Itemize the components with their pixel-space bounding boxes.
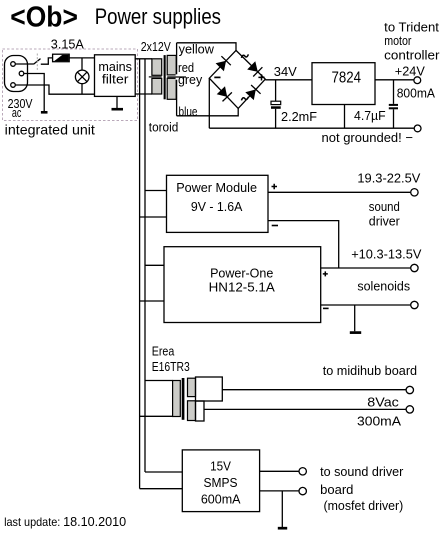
wire to midihub [222, 389, 406, 391]
terminal SMPS bottom [299, 487, 306, 494]
mains filter box [95, 55, 136, 97]
wire SMPS ground stub [281, 491, 283, 527]
wire lamp bottom stub [81, 84, 83, 95]
label + (PM output) [272, 184, 278, 189]
svg-text:19.3-22.5V: 19.3-22.5V [357, 170, 420, 185]
svg-text:8Vac: 8Vac [367, 394, 399, 409]
label - left [214, 76, 220, 78]
svg-text:Power-One: Power-One [210, 266, 273, 281]
ground bar (SMPS) [278, 527, 287, 530]
svg-text:+24V: +24V [395, 63, 425, 78]
svg-text:ac: ac [12, 105, 22, 120]
wire bridge + to 7824 [265, 79, 312, 81]
transformer TR1 primary winding lower [152, 78, 162, 94]
wire Erea input bottom [140, 415, 173, 417]
svg-text:to midihub board: to midihub board [323, 363, 417, 378]
capacitor C1 2.2mF plus plate [271, 101, 281, 104]
integrated unit dashed enclosure [3, 49, 138, 121]
transformer TR1 secondary winding upper [167, 55, 176, 75]
wire PM - output to PO + rail [268, 221, 339, 268]
svg-text:18.10.2010: 18.10.2010 [63, 514, 126, 529]
svg-text:Power Module: Power Module [176, 180, 257, 195]
terminal midihub [406, 386, 413, 393]
svg-text:last update:: last update: [4, 515, 60, 529]
wire filter to toroid primary (bottom) [135, 93, 152, 95]
wire PO + output [321, 267, 411, 269]
svg-text:filter: filter [102, 72, 129, 87]
svg-text:grey: grey [178, 72, 203, 87]
smps PS3 box [182, 450, 259, 512]
wire 7824 ground pin [344, 105, 346, 129]
capacitor C1 2.2mF minus plate [271, 106, 281, 109]
diode D3 (left to bottom) [217, 86, 232, 101]
terminal SMPS top [299, 468, 306, 475]
wire 7824 out to +24V [375, 79, 414, 81]
wire yellow (secondary to bridge top) [177, 43, 236, 51]
svg-text:yellow: yellow [179, 41, 215, 56]
wire SMPS input top [145, 471, 182, 473]
wire PO ground stub [354, 305, 356, 331]
wire secondary side vertical [176, 43, 178, 116]
wire bridge negative down to rail [208, 78, 210, 128]
ground bar (filter) [112, 108, 124, 111]
wire fuse to mains filter [69, 57, 94, 59]
svg-text:integrated unit: integrated unit [5, 121, 95, 137]
bridge rectifier BR1 diamond [209, 50, 265, 108]
transformer TR2 core [182, 378, 185, 420]
svg-text:to sound driver: to sound driver [320, 464, 404, 479]
plug pin E [19, 71, 24, 76]
label + right [258, 74, 264, 80]
plug pin L [11, 62, 16, 67]
transformer TR2 primary winding [173, 381, 181, 417]
transformer TR2 secondary winding lower [188, 401, 196, 421]
wire loop 8Vac winding [196, 401, 205, 421]
svg-text:(mosfet driver): (mosfet driver) [324, 498, 404, 513]
wire filter to toroid primary (top) [135, 58, 152, 60]
node red-grey junction halo [176, 74, 187, 79]
svg-text:15V: 15V [210, 458, 231, 473]
wire PM input top [145, 190, 167, 192]
wire switch to fuse [41, 58, 53, 64]
diode D1 (left to top) [216, 56, 231, 71]
transformer TR2 secondary winding upper [188, 378, 196, 396]
transformer TR1 primary winding upper [152, 59, 162, 76]
power one PS2 box [164, 247, 321, 323]
diode D4 (bottom to right) [245, 85, 260, 100]
wire 8Vac [204, 408, 406, 410]
label ~ bottom [241, 97, 248, 101]
svg-text:solenoids: solenoids [357, 279, 410, 294]
plug pin N [11, 83, 16, 88]
wire 2.2mF top stub [275, 80, 277, 101]
regulator U1 7824 box [312, 63, 375, 105]
svg-text:blue: blue [179, 104, 198, 119]
terminal 19.3-22.5V [411, 189, 418, 196]
fuse F1 3.15A body [53, 54, 70, 62]
wire blue (secondary to bridge bottom) [177, 108, 239, 115]
ground bar (solenoids) [350, 331, 361, 334]
lamp LP1 [75, 70, 89, 84]
svg-text:4.7µF: 4.7µF [354, 108, 386, 123]
wire PO input top [145, 264, 164, 266]
capacitor C2 4.7uF plate 1 [389, 104, 398, 106]
svg-text:300mA: 300mA [357, 414, 401, 429]
svg-text:9V - 1.6A: 9V - 1.6A [191, 199, 243, 214]
terminal +24V [414, 77, 421, 84]
wire mains bus line 1 [139, 59, 141, 489]
wire lamp top stub [81, 58, 83, 70]
transformer TR1 secondary winding lower [167, 78, 176, 99]
label - (PM output) [272, 225, 278, 227]
switch S1 blade [34, 59, 41, 65]
wire Erea input top [145, 380, 173, 382]
wire loop midihub winding [196, 377, 223, 401]
svg-text:SMPS: SMPS [204, 475, 238, 490]
svg-text:34V: 34V [274, 64, 297, 79]
label ~ top [241, 54, 248, 58]
wire SMPS output bottom [260, 490, 299, 492]
transformer TR1 secondary center tap tick [167, 76, 186, 78]
power module PS1 box [167, 175, 269, 232]
wire SMPS output top [260, 470, 299, 472]
wire 4.7uF bottom stub [393, 109, 395, 128]
label + (PO output) [323, 271, 328, 276]
wire bottom rail (not grounded) [209, 127, 414, 129]
transformer TR1 core [164, 55, 166, 99]
terminal +10.3-13.5V [411, 264, 418, 271]
wire filter ground stub [116, 96, 118, 108]
svg-text:Power supplies: Power supplies [95, 4, 221, 29]
svg-text:+10.3-13.5V: +10.3-13.5V [351, 247, 422, 262]
ground earth bar (plug) [41, 111, 48, 114]
wire 2.2mF bottom stub [275, 109, 277, 128]
switch dashed actuator line [36, 54, 38, 71]
svg-text:toroid: toroid [149, 120, 179, 135]
terminal solenoids - [411, 301, 418, 308]
wire PO input bottom [140, 300, 164, 302]
svg-text:<Ob>: <Ob> [10, 1, 78, 33]
wire PO - output [321, 304, 411, 306]
svg-text:not grounded! −: not grounded! − [322, 130, 414, 145]
svg-text:3.15A: 3.15A [51, 36, 84, 51]
wire E pin to earth [24, 74, 44, 112]
label - (PO output) [323, 307, 329, 309]
plug P1 230V ac [5, 56, 28, 92]
wire PM input bottom [140, 216, 167, 218]
svg-text:board: board [320, 482, 353, 497]
wire mains bus line 2 [144, 59, 146, 472]
svg-text:motor: motor [384, 33, 412, 48]
wire L pin to switch [15, 63, 33, 65]
wire SMPS input bottom [140, 488, 183, 490]
terminal not grounded [414, 125, 421, 132]
terminal 8Vac [406, 406, 413, 413]
capacitor C2 4.7uF plate 2 [389, 107, 398, 109]
transformer TR1 primary center tap tick [149, 76, 162, 78]
wire 4.7uF stub [393, 80, 395, 104]
fuse F1 fill flag [54, 55, 68, 61]
svg-text:7824: 7824 [332, 69, 362, 86]
svg-text:Erea: Erea [152, 344, 175, 359]
svg-text:800mA: 800mA [397, 86, 436, 101]
svg-text:2.2mF: 2.2mF [281, 109, 317, 124]
diode D2 (top to right) [247, 61, 262, 76]
svg-text:sound: sound [369, 199, 400, 214]
svg-text:controller: controller [384, 48, 440, 63]
svg-text:E16TR3: E16TR3 [152, 359, 190, 374]
wire N pin to filter [15, 85, 94, 94]
svg-text:2x12V: 2x12V [141, 39, 171, 54]
svg-text:HN12-5.1A: HN12-5.1A [209, 280, 275, 295]
svg-text:600mA: 600mA [201, 492, 241, 507]
svg-text:driver: driver [369, 214, 401, 229]
wire PM + output [268, 191, 410, 193]
